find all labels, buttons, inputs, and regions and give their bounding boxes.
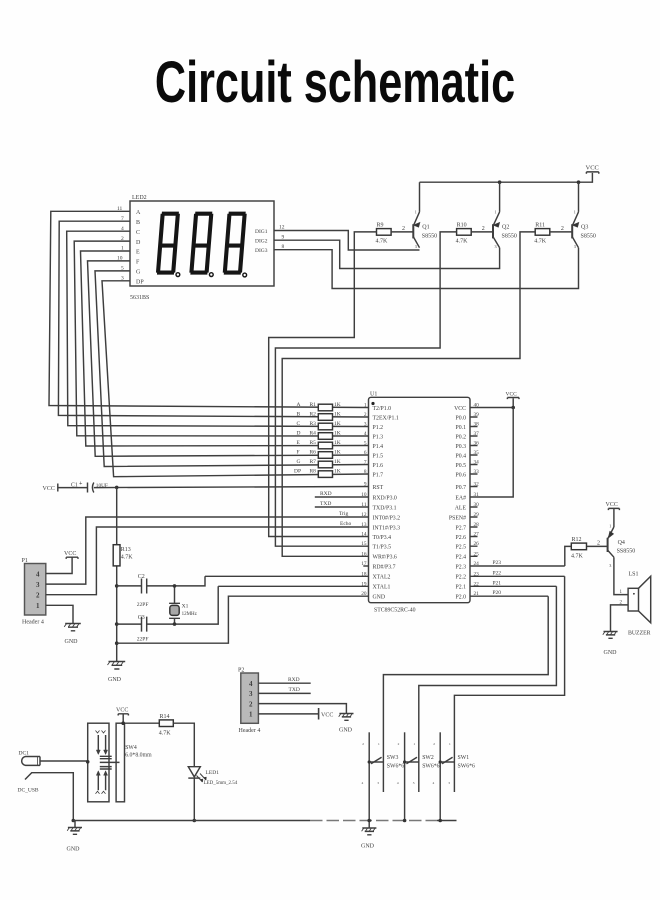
- wire R14 to LED1: [173, 723, 194, 767]
- U1 left pin names: [373, 406, 401, 601]
- svg-text:ALE: ALE: [455, 505, 467, 511]
- svg-text:R9: R9: [377, 222, 384, 228]
- junction SW1 at rail: [438, 819, 442, 823]
- svg-text:X1: X1: [182, 604, 189, 610]
- svg-text:2: 2: [597, 540, 600, 546]
- svg-text:3: 3: [413, 781, 415, 785]
- wire R9 to Q1 base: [391, 231, 413, 233]
- svg-text:R12: R12: [572, 537, 582, 543]
- svg-text:P20: P20: [493, 590, 502, 596]
- svg-text:RXD/P3.0: RXD/P3.0: [373, 495, 397, 501]
- wire R10 to Q2 base: [471, 231, 493, 233]
- display left pin numbers: [117, 206, 124, 281]
- wire R11 left to MCU P3.6: [282, 232, 535, 556]
- digit 1 (8 with DP): [157, 214, 180, 277]
- svg-text:DP: DP: [136, 279, 144, 285]
- VCC power tap above Q4: [606, 502, 620, 510]
- svg-text:C3: C3: [138, 615, 145, 621]
- svg-text:5: 5: [364, 441, 367, 447]
- svg-text:T0/P3.4: T0/P3.4: [373, 535, 392, 541]
- svg-text:P2.6: P2.6: [456, 535, 467, 541]
- svg-text:P0.4: P0.4: [456, 453, 467, 459]
- wire segment D: [74, 241, 368, 436]
- wire C1 to RST pin9: [94, 487, 369, 488]
- svg-text:3: 3: [609, 563, 611, 568]
- wire VCC rail: [420, 173, 593, 182]
- svg-text:VCC: VCC: [454, 406, 466, 412]
- svg-text:9: 9: [282, 234, 285, 240]
- wire VCC to Q4 emitter: [613, 509, 615, 527]
- svg-text:P22: P22: [493, 570, 502, 576]
- svg-text:12MHz: 12MHz: [182, 612, 198, 617]
- svg-text:T1/P3.5: T1/P3.5: [373, 545, 392, 551]
- svg-text:16: 16: [361, 551, 367, 557]
- svg-text:F: F: [136, 259, 140, 265]
- junction X1 top: [173, 584, 177, 588]
- digit 3 (8 with DP): [224, 214, 247, 277]
- svg-text:1: 1: [609, 524, 611, 529]
- svg-text:3: 3: [574, 244, 576, 249]
- svg-text:Header 4: Header 4: [22, 620, 44, 626]
- wire P1 pin3 to U1 INT0#/P3.2 (Trig): [46, 517, 369, 584]
- svg-text:P1.4: P1.4: [373, 444, 384, 450]
- wire TXD stub: [315, 506, 369, 508]
- switch SW1 SW6*6: [433, 732, 475, 820]
- svg-text:T2/P1.0: T2/P1.0: [373, 406, 392, 412]
- svg-text:+: +: [79, 481, 83, 487]
- svg-text:STC89C52RC-40: STC89C52RC-40: [374, 608, 416, 614]
- junction SW2 at rail: [403, 819, 407, 823]
- svg-text:BUZZER: BUZZER: [628, 630, 651, 636]
- ground rail right section: [437, 820, 457, 822]
- ground symbol below P1: [64, 624, 81, 646]
- svg-text:R6: R6: [310, 449, 317, 455]
- resistor R2 1K: [297, 411, 341, 420]
- svg-text:4.7K: 4.7K: [159, 730, 172, 736]
- VCC power tap above SW4: [116, 708, 128, 716]
- svg-text:PSEN#: PSEN#: [449, 515, 466, 521]
- svg-text:14: 14: [361, 532, 367, 538]
- wire RXD stub: [315, 496, 369, 498]
- svg-text:4.7K: 4.7K: [534, 239, 547, 245]
- wire C3 row left: [117, 623, 142, 625]
- svg-text:INT0#/P3.2: INT0#/P3.2: [373, 515, 401, 521]
- ground symbol below crystal node: [108, 662, 126, 684]
- svg-text:7: 7: [364, 460, 367, 466]
- svg-text:1: 1: [574, 210, 576, 215]
- svg-text:4: 4: [362, 781, 364, 785]
- svg-text:2: 2: [482, 226, 485, 232]
- transistor Q4 S8550: [608, 524, 636, 569]
- resistor R1 1K: [297, 402, 341, 411]
- svg-text:DIG2: DIG2: [255, 239, 268, 245]
- transistor Q3 S8550: [572, 182, 596, 249]
- svg-text:R10: R10: [457, 222, 467, 228]
- wire DC1 center pin to SW4: [40, 760, 88, 762]
- svg-text:R11: R11: [535, 222, 545, 228]
- VCC power tap above P1: [64, 551, 78, 559]
- svg-text:4: 4: [397, 781, 399, 785]
- svg-text:1: 1: [378, 742, 380, 746]
- svg-text:1K: 1K: [334, 468, 341, 474]
- wire XTAL1 row to U1 pin19: [218, 585, 368, 587]
- wire P2.2 right: [470, 575, 565, 577]
- VCC bar symbol at P2 pin1: [319, 708, 334, 720]
- wire segment DP: [102, 281, 369, 477]
- svg-text:VCC: VCC: [116, 708, 128, 714]
- svg-text:5631BS: 5631BS: [130, 295, 149, 301]
- wire P1 pin2 to U1 INT1#/P3.3 (Echo): [46, 527, 369, 595]
- wire R10 left to MCU P3.5: [275, 232, 456, 546]
- svg-text:P1.6: P1.6: [373, 463, 384, 469]
- wire segment G: [95, 271, 369, 467]
- svg-text:P23: P23: [493, 560, 502, 566]
- svg-text:LED_5mm_2.54: LED_5mm_2.54: [204, 781, 238, 786]
- ground rail faded section (watermark): [310, 820, 437, 822]
- junction on rail at Q3 emitter: [577, 180, 581, 184]
- resistor R4 1K: [297, 430, 341, 439]
- svg-text:R5: R5: [310, 440, 317, 446]
- svg-text:P1.3: P1.3: [373, 434, 384, 440]
- wire C2 row right to XTAL2 riser: [147, 576, 205, 586]
- svg-text:B: B: [297, 411, 301, 417]
- wire segment A: display pin 11 to resistor row 1: [49, 211, 369, 407]
- svg-text:6.0*8.0mm: 6.0*8.0mm: [125, 753, 152, 759]
- svg-text:C: C: [297, 421, 301, 427]
- svg-text:P2.3: P2.3: [456, 564, 467, 570]
- svg-text:LED1: LED1: [206, 770, 220, 776]
- svg-text:P2.4: P2.4: [456, 555, 467, 561]
- junction DC1 wire at SW4: [86, 760, 90, 764]
- svg-text:1: 1: [364, 403, 367, 409]
- wire P2 pin2 to ground: [258, 704, 346, 714]
- svg-text:3: 3: [249, 690, 253, 698]
- wire Q4 collector to buzzer pin 1: [614, 557, 628, 594]
- svg-text:R14: R14: [160, 714, 170, 720]
- svg-text:1K: 1K: [334, 459, 341, 465]
- wire U1 VCC pin40 to VCC symbol: [470, 398, 513, 407]
- svg-text:C2: C2: [138, 574, 145, 580]
- junction RST node: [115, 486, 119, 490]
- svg-text:DP: DP: [294, 468, 301, 474]
- svg-text:4: 4: [36, 570, 40, 578]
- svg-text:3: 3: [495, 244, 497, 249]
- svg-text:VCC: VCC: [586, 165, 599, 172]
- svg-text:3: 3: [448, 781, 450, 785]
- resistor R9 4.7K: [376, 222, 392, 244]
- resistor R10 4.7K: [456, 222, 472, 244]
- svg-text:P2.2: P2.2: [456, 575, 467, 581]
- svg-text:P2.5: P2.5: [456, 545, 467, 551]
- junction LED1 at rail: [193, 819, 197, 823]
- svg-text:F: F: [297, 449, 300, 455]
- svg-text:1K: 1K: [334, 411, 341, 417]
- svg-text:Q2: Q2: [502, 225, 509, 231]
- svg-text:P1.5: P1.5: [373, 453, 384, 459]
- svg-text:R13: R13: [121, 547, 131, 553]
- svg-text:Header 4: Header 4: [239, 728, 261, 734]
- svg-text:4.7K: 4.7K: [121, 555, 134, 561]
- wire VCC to C1: [58, 487, 88, 489]
- wire P2.3 to R12 riser: [470, 565, 565, 567]
- svg-text:Q3: Q3: [581, 225, 588, 231]
- svg-text:SW6*6: SW6*6: [458, 763, 475, 769]
- wire P2 pin1 to VCC bar: [258, 713, 318, 715]
- DC power jack DC1: [19, 751, 41, 766]
- svg-text:P1.7: P1.7: [373, 472, 384, 478]
- svg-text:4: 4: [433, 781, 435, 785]
- svg-text:WR#/P3.6: WR#/P3.6: [373, 555, 397, 561]
- resistor R8 1K: [294, 468, 341, 477]
- junction VCC/SW4 node: [121, 721, 125, 725]
- svg-text:Q4: Q4: [618, 540, 625, 546]
- svg-text:12: 12: [279, 225, 285, 231]
- svg-text:A: A: [297, 402, 301, 408]
- microcontroller U1 STC89C52RC-40: [369, 392, 471, 614]
- svg-text:3: 3: [36, 581, 40, 589]
- svg-text:1K: 1K: [334, 430, 341, 436]
- header P1 (Header 4): [22, 558, 46, 626]
- svg-text:1: 1: [449, 742, 451, 746]
- svg-text:EA#: EA#: [455, 495, 466, 501]
- svg-text:1: 1: [413, 742, 415, 746]
- svg-text:1K: 1K: [334, 440, 341, 446]
- svg-text:VCC: VCC: [43, 486, 55, 492]
- wire P2.0 right: [470, 595, 548, 597]
- svg-text:TXD/P3.1: TXD/P3.1: [373, 505, 397, 511]
- ground symbol on rail: [361, 821, 376, 850]
- U1 right pin names: [449, 406, 467, 601]
- svg-text:A: A: [136, 210, 141, 216]
- wire buzzer pin 2 to ground: [611, 605, 629, 632]
- svg-text:DC1: DC1: [19, 751, 30, 757]
- LED LED1 LED_5mm_2.54: [188, 767, 237, 786]
- svg-text:1: 1: [495, 210, 497, 215]
- wire DIG1: display pin12 to Q1 collector: [274, 231, 420, 251]
- svg-text:6: 6: [364, 450, 367, 456]
- wire R9 left to MCU P3.4: [269, 232, 377, 537]
- DC1 sleeve lead: [25, 773, 73, 821]
- wire P1 pin1 to ground: [46, 605, 73, 623]
- svg-text:DIG1: DIG1: [255, 229, 268, 235]
- svg-text:B: B: [136, 220, 140, 226]
- buzzer LS1: [628, 571, 651, 636]
- svg-text:4.7K: 4.7K: [376, 239, 389, 245]
- svg-text:R1: R1: [310, 402, 317, 408]
- svg-text:T2EX/P1.1: T2EX/P1.1: [373, 415, 399, 421]
- switch SW3 SW6*6: [362, 732, 405, 820]
- svg-text:4.7K: 4.7K: [456, 239, 469, 245]
- svg-text:2: 2: [561, 226, 564, 232]
- svg-text:SW4: SW4: [125, 745, 137, 751]
- resistor R13 4.7K: [113, 545, 133, 566]
- svg-text:S8550: S8550: [502, 234, 517, 240]
- svg-text:2: 2: [36, 592, 40, 600]
- junction DC_USB at rail: [72, 819, 76, 823]
- svg-text:TXD: TXD: [289, 687, 300, 693]
- ground symbol below rail left: [67, 821, 83, 853]
- svg-text:VCC: VCC: [506, 391, 518, 397]
- ground symbol at P2: [339, 714, 354, 734]
- switch SW2 SW6*6: [397, 732, 440, 820]
- svg-text:1: 1: [415, 210, 417, 215]
- wire P2.2 to switch SW1: [454, 576, 564, 792]
- wire RST node down to GND node: [116, 487, 118, 661]
- wire segment B: [58, 221, 368, 417]
- resistor R11 4.7K: [534, 222, 550, 244]
- svg-text:VCC: VCC: [64, 551, 76, 557]
- svg-text:SW2: SW2: [422, 755, 434, 761]
- svg-text:R4: R4: [310, 430, 317, 436]
- svg-text:2: 2: [433, 742, 435, 746]
- svg-text:R8: R8: [310, 468, 317, 474]
- wire EA# pin31 to VCC node: [470, 408, 513, 498]
- svg-text:P1.2: P1.2: [373, 425, 384, 431]
- wire GND row U1 pin20: [117, 596, 369, 643]
- svg-text:P0.6: P0.6: [456, 472, 467, 478]
- resistor R14 4.7K: [159, 714, 174, 736]
- junction C2 row: [115, 584, 119, 588]
- wire R12 to P2.3: [565, 546, 572, 566]
- wire P2 pin3 TXD stub: [258, 692, 310, 694]
- resistor R5 1K: [297, 440, 341, 449]
- svg-text:SW6*6: SW6*6: [387, 763, 404, 769]
- svg-text:2: 2: [362, 742, 364, 746]
- svg-text:XTAL1: XTAL1: [373, 585, 391, 591]
- resistor R6 1K: [297, 449, 341, 458]
- svg-text:P0.7: P0.7: [456, 485, 467, 491]
- svg-text:C: C: [136, 230, 140, 236]
- wire P2.0 to switch SW3: [383, 596, 548, 792]
- header P2 (Header 4): [238, 668, 260, 735]
- capacitor C2 22PF: [137, 574, 149, 608]
- svg-text:RXD: RXD: [288, 677, 300, 683]
- transistor Q1 S8550: [413, 182, 437, 249]
- wire segment E: [81, 251, 369, 446]
- wire C2 row left: [117, 585, 142, 587]
- U1 right pin stubs P0.0-P0.7 ALE PSEN P2.7-P2.4: [470, 417, 478, 556]
- wire P1 pin4 to VCC: [46, 557, 72, 573]
- junction SW3 at rail: [367, 819, 371, 823]
- svg-text:P21: P21: [493, 580, 502, 586]
- svg-text:GND: GND: [65, 639, 79, 645]
- svg-text:P0.1: P0.1: [456, 425, 467, 431]
- svg-text:DC_USB: DC_USB: [18, 788, 39, 794]
- svg-text:S8550: S8550: [422, 234, 437, 240]
- transistor Q2 S8550: [493, 182, 517, 249]
- svg-text:SW3: SW3: [387, 755, 399, 761]
- svg-text:Q1: Q1: [422, 225, 429, 231]
- junction X1 bottom: [173, 622, 177, 626]
- svg-text:2: 2: [364, 412, 367, 418]
- switch SW4 6.0*8.0mm: [88, 723, 152, 802]
- svg-text:U1: U1: [370, 392, 377, 398]
- svg-text:S8550: S8550: [581, 234, 596, 240]
- wire segment F: [88, 261, 369, 456]
- svg-text:15: 15: [361, 541, 367, 547]
- svg-text:VCC: VCC: [606, 502, 618, 508]
- ground rail wire: [73, 820, 310, 822]
- svg-text:1: 1: [249, 711, 253, 719]
- svg-text:LED2: LED2: [132, 195, 147, 201]
- svg-text:4: 4: [364, 431, 367, 437]
- resistor R7 1K: [297, 459, 341, 468]
- svg-text:22PF: 22PF: [137, 602, 149, 608]
- svg-text:8: 8: [282, 244, 285, 250]
- svg-text:GND: GND: [339, 728, 353, 734]
- svg-text:E: E: [136, 250, 140, 256]
- svg-text:DIG3: DIG3: [255, 248, 268, 254]
- svg-text:VCC: VCC: [321, 712, 333, 718]
- junction pin40/EA: [511, 406, 515, 410]
- svg-text:22PF: 22PF: [137, 636, 149, 642]
- svg-text:1: 1: [36, 602, 40, 610]
- svg-text:XTAL2: XTAL2: [373, 575, 391, 581]
- digit 2 (8 with DP): [191, 214, 214, 277]
- svg-text:G: G: [297, 459, 301, 465]
- svg-text:GND: GND: [108, 677, 122, 683]
- svg-text:GND: GND: [604, 650, 618, 656]
- wire DIG2: display pin9 to Q2 collector: [274, 240, 500, 268]
- svg-text:D: D: [297, 430, 301, 436]
- svg-text:2: 2: [398, 742, 400, 746]
- wire VCC to R14: [123, 714, 159, 723]
- wire P2.1 to switch SW2: [419, 586, 557, 792]
- wire Q4 base to R12: [587, 545, 608, 547]
- svg-text:P0.0: P0.0: [456, 415, 467, 421]
- svg-text:G: G: [136, 269, 141, 275]
- wire R11 to Q3 base: [550, 231, 572, 233]
- wire P2.1 right: [470, 585, 556, 587]
- junction on rail at Q2 emitter: [498, 180, 502, 184]
- svg-text:2: 2: [249, 700, 253, 708]
- svg-text:P2.7: P2.7: [456, 525, 467, 531]
- crystal X1 12MHz: [169, 586, 198, 624]
- svg-text:SS8550: SS8550: [617, 548, 636, 554]
- svg-text:GND: GND: [361, 844, 375, 850]
- svg-text:SW6*6: SW6*6: [422, 763, 439, 769]
- svg-text:P0.5: P0.5: [456, 463, 467, 469]
- svg-text:3: 3: [415, 244, 417, 249]
- svg-text:SW1: SW1: [458, 755, 470, 761]
- svg-text:GND: GND: [67, 847, 81, 853]
- svg-text:P0.2: P0.2: [456, 434, 467, 440]
- svg-text:RD#/P3.7: RD#/P3.7: [373, 564, 396, 570]
- VCC power symbol above U1 right: [506, 391, 520, 399]
- 7-segment display LED2: [130, 195, 274, 301]
- svg-text:1K: 1K: [334, 449, 341, 455]
- wire DIG3: display pin8 to Q3 collector: [274, 248, 579, 289]
- junction C3 row: [115, 622, 119, 626]
- svg-text:R2: R2: [310, 411, 317, 417]
- junction GND row: [115, 641, 119, 645]
- svg-text:2: 2: [402, 226, 405, 232]
- svg-text:RST: RST: [373, 485, 384, 491]
- VCC power tap left of C1: [43, 484, 58, 493]
- svg-text:P0.3: P0.3: [456, 444, 467, 450]
- capacitor C1 10UF polarized: [71, 481, 108, 493]
- svg-text:P2.1: P2.1: [456, 585, 467, 591]
- svg-text:1K: 1K: [334, 402, 341, 408]
- U1 right pin numbers: [474, 403, 480, 598]
- title: [89, 53, 581, 113]
- svg-text:C1: C1: [71, 482, 78, 488]
- svg-text:3: 3: [364, 422, 367, 428]
- wire LED1 to ground rail: [193, 778, 195, 820]
- U1 left pin numbers: [361, 403, 367, 598]
- svg-text:R7: R7: [310, 459, 317, 465]
- wire P2 pin4 RXD stub: [258, 682, 310, 684]
